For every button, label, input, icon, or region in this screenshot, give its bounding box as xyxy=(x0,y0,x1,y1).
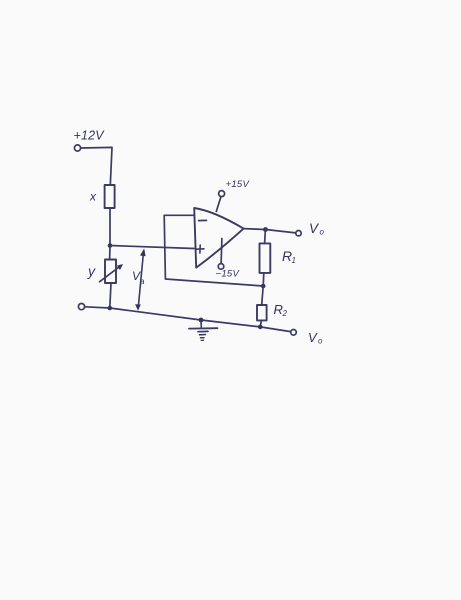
resistor R2 xyxy=(257,305,267,320)
wire potentiometer y to bottom rail xyxy=(110,283,111,308)
bottom rail wire xyxy=(85,307,291,332)
ground node xyxy=(199,318,204,323)
resistor R1 xyxy=(260,243,271,273)
svg-text:o: o xyxy=(318,337,323,346)
svg-text:2: 2 xyxy=(282,309,288,318)
node C (R1/R2 junction) xyxy=(261,284,266,289)
terminal +12V xyxy=(74,145,80,151)
wire R1 to node C xyxy=(262,273,265,286)
terminal bottom-left xyxy=(78,304,84,310)
resistor x xyxy=(105,185,115,208)
svg-text:−15V: −15V xyxy=(216,269,241,280)
wire node C to R2 xyxy=(262,286,264,305)
wire node B to R1 xyxy=(264,230,267,244)
terminal Vo top xyxy=(296,231,301,236)
svg-text:R: R xyxy=(274,302,283,317)
svg-text:V: V xyxy=(308,330,318,345)
wire +15V to op-amp xyxy=(216,197,221,212)
ground xyxy=(200,320,202,328)
terminal -15V xyxy=(218,264,224,270)
node A xyxy=(108,243,113,248)
svg-text:+12V: +12V xyxy=(74,129,106,143)
op-amp minus input mark xyxy=(199,219,207,221)
wire op-amp to -15V terminal xyxy=(220,239,223,264)
svg-text:y: y xyxy=(87,263,96,279)
potentiometer y xyxy=(105,260,116,284)
wire resistor x to node A xyxy=(109,208,111,246)
svg-text:o: o xyxy=(320,228,325,237)
node D (R2 / rail junction) xyxy=(258,325,263,330)
svg-text:+15V: +15V xyxy=(226,179,251,190)
terminal Vo bottom xyxy=(291,330,297,336)
svg-text:x: x xyxy=(89,190,97,204)
svg-text:a: a xyxy=(140,277,145,286)
op-amp plus input mark xyxy=(196,245,204,253)
svg-text:1: 1 xyxy=(292,256,296,265)
node B xyxy=(263,227,268,232)
wire R2 to bottom rail xyxy=(260,320,261,327)
arrow Va xyxy=(138,251,143,308)
terminal +15V xyxy=(219,191,225,197)
output wire op-amp to node B xyxy=(244,228,266,231)
wire node A to potentiometer y xyxy=(109,246,111,260)
junction bottom-left xyxy=(108,306,113,311)
wire node B to Vo terminal xyxy=(266,230,296,233)
wire +12V terminal to resistor x xyxy=(81,147,112,185)
wire node A to op-amp + input xyxy=(110,246,194,249)
op-amp U1 xyxy=(194,208,243,268)
feedback wire (inverting input to R1/R2 junction) xyxy=(164,215,263,286)
